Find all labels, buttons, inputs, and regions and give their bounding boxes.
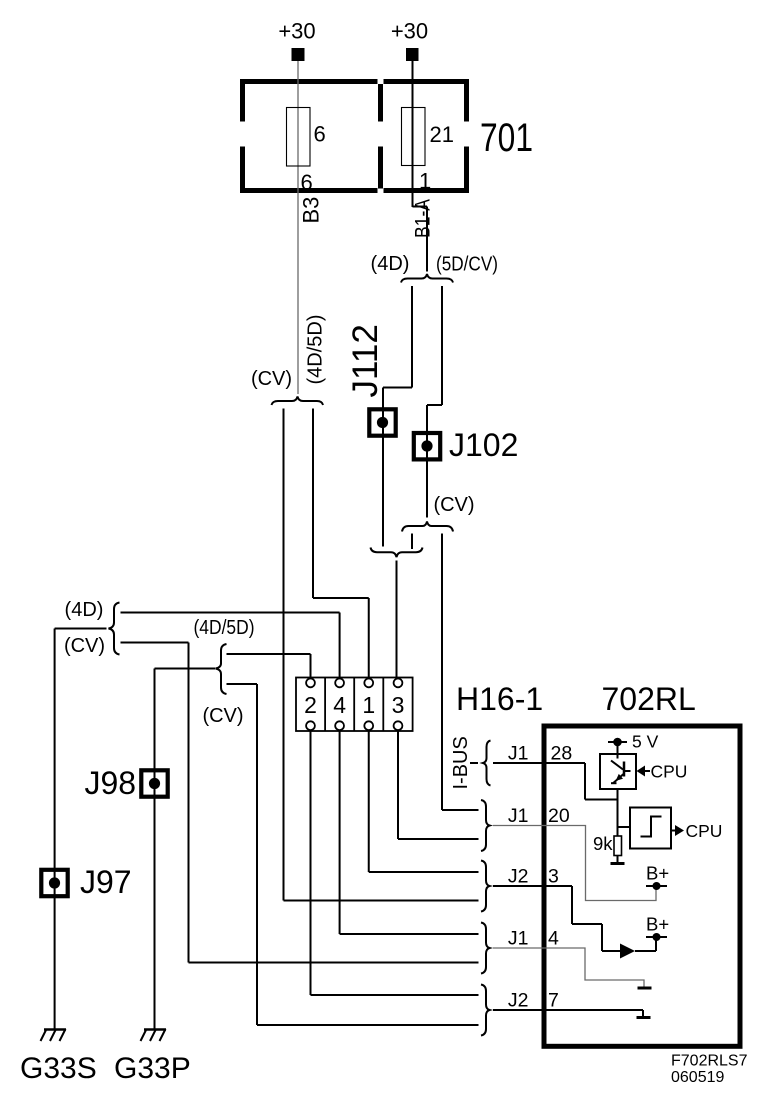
svg-text:J97: J97 [80, 864, 132, 900]
svg-text:B+: B+ [646, 914, 669, 935]
svg-text:5 V: 5 V [632, 732, 659, 752]
svg-text:(CV): (CV) [251, 368, 292, 390]
svg-text:21: 21 [430, 122, 454, 147]
svg-text:701: 701 [480, 116, 533, 160]
svg-text:1: 1 [419, 169, 431, 194]
svg-text:B3: B3 [299, 197, 324, 224]
svg-text:I-BUS: I-BUS [450, 736, 472, 789]
svg-text:J98: J98 [85, 765, 137, 801]
svg-text:(5D/CV): (5D/CV) [436, 254, 498, 276]
svg-text:28: 28 [551, 743, 573, 765]
svg-text:B+: B+ [646, 863, 669, 884]
svg-text:3: 3 [392, 692, 405, 718]
svg-text:4: 4 [333, 692, 346, 718]
svg-text:G33P: G33P [114, 1052, 191, 1085]
svg-text:CPU: CPU [651, 762, 688, 782]
svg-text:J1: J1 [508, 805, 529, 827]
svg-text:J102: J102 [449, 427, 518, 463]
svg-text:4: 4 [548, 928, 559, 950]
svg-text:(CV): (CV) [433, 494, 474, 516]
svg-text:H16-1: H16-1 [456, 681, 543, 717]
svg-text:060519: 060519 [671, 1069, 724, 1086]
svg-text:(CV): (CV) [64, 635, 105, 657]
svg-text:9k: 9k [593, 833, 613, 854]
svg-text:J2: J2 [508, 990, 529, 1012]
svg-text:G33S: G33S [20, 1052, 97, 1085]
svg-text:(4D): (4D) [65, 599, 104, 621]
svg-text:2: 2 [304, 692, 317, 718]
svg-text:CPU: CPU [686, 821, 723, 841]
svg-text:F702RLS7: F702RLS7 [671, 1053, 748, 1070]
svg-text:+30: +30 [391, 19, 428, 44]
svg-text:(4D): (4D) [371, 253, 410, 275]
svg-text:J112: J112 [346, 324, 385, 397]
svg-text:+30: +30 [278, 19, 315, 44]
svg-text:J2: J2 [508, 866, 529, 888]
svg-text:6: 6 [301, 170, 313, 195]
svg-text:1: 1 [362, 692, 375, 718]
svg-text:20: 20 [548, 805, 570, 827]
svg-text:702RL: 702RL [602, 681, 696, 717]
svg-text:7: 7 [548, 990, 559, 1012]
svg-text:(CV): (CV) [202, 705, 243, 727]
svg-text:3: 3 [548, 866, 559, 888]
svg-text:J1: J1 [508, 928, 529, 950]
svg-text:6: 6 [314, 122, 326, 147]
svg-text:(4D/5D): (4D/5D) [194, 617, 255, 639]
svg-text:B1-A: B1-A [412, 199, 435, 238]
svg-text:(4D/5D): (4D/5D) [305, 314, 327, 384]
svg-text:J1: J1 [508, 743, 529, 765]
